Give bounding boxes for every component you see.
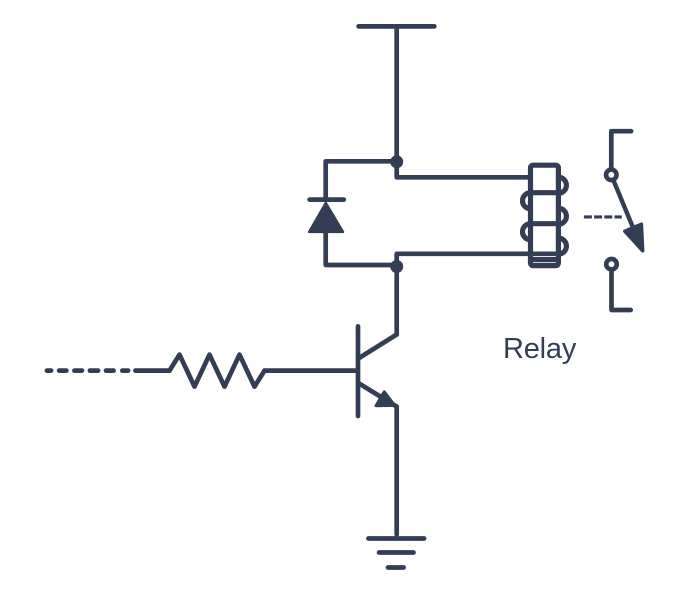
diode D1 cathode bar xyxy=(310,197,344,202)
dashed mechanical link (coil to contact) xyxy=(584,215,622,218)
ground bar 1 xyxy=(368,536,424,541)
switch common contact circle xyxy=(606,170,617,181)
relay coil left loop 2 xyxy=(523,224,531,240)
resistor R1 (zigzag) xyxy=(170,355,265,387)
node B (junction dot at diode bottom) xyxy=(390,260,403,273)
relay coil body rectangle xyxy=(531,165,559,265)
wire: supply down to collector-node corner, then right to coil top xyxy=(397,26,531,177)
transistor Q1 base bar xyxy=(356,326,361,416)
wire: emitter down to ground xyxy=(394,407,399,535)
switch bottom terminal stub xyxy=(612,271,631,310)
switch blade xyxy=(614,181,634,230)
input dashed wire xyxy=(47,368,128,373)
switch top terminal stub xyxy=(611,131,631,168)
node A (junction dot at diode top) xyxy=(390,155,403,168)
transistor Q1 emitter diagonal xyxy=(358,383,396,407)
wire: node A left to diode cathode lead xyxy=(326,161,394,197)
power rail (positive supply bar) xyxy=(359,24,435,29)
relay coil left loop 1 xyxy=(523,193,531,209)
svg-text:Relay: Relay xyxy=(503,333,577,365)
wire: input to resistor xyxy=(135,368,169,373)
transistor Q1 emitter arrowhead xyxy=(376,392,395,406)
relay coil right loop 1 xyxy=(558,177,566,193)
ground bar 3 xyxy=(388,565,404,570)
wire: diode anode lead down and right to node B xyxy=(326,233,394,265)
wire: resistor to transistor base xyxy=(265,368,356,373)
relay coil right loop 2 xyxy=(558,208,566,224)
relay coil divider 3 xyxy=(531,257,559,262)
wire: corner above node B right to coil bottom (crosses coil) xyxy=(397,254,559,335)
ground bar 2 xyxy=(379,550,414,555)
relay coil divider 2 xyxy=(531,221,559,226)
switch blade arrowhead xyxy=(625,224,643,251)
transistor Q1 collector diagonal xyxy=(358,335,396,359)
switch lower contact circle xyxy=(606,259,617,270)
relay coil right loop 3 xyxy=(558,238,566,254)
diode D1 triangle (anode, pointing up) xyxy=(309,203,343,232)
relay coil divider 1 xyxy=(531,190,559,195)
